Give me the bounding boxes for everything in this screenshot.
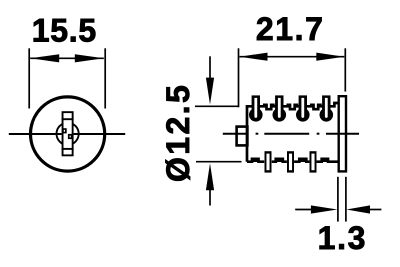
extension line left of 21.7 xyxy=(238,48,240,107)
centerline left segment xyxy=(9,133,62,135)
tumbler pin 3 xyxy=(296,95,310,121)
keyhole top cap line xyxy=(62,118,74,120)
tumbler pin 4 xyxy=(320,95,334,121)
extension line left of 15.5 xyxy=(28,48,30,108)
1.3 left arrowhead xyxy=(311,205,338,213)
arrowhead left (15.5) xyxy=(30,54,59,62)
centerline right segment xyxy=(74,133,126,135)
Ø12.5 bottom extension line xyxy=(196,161,242,163)
1.3 right leader line xyxy=(369,209,381,211)
centerline of side view (dash-dot) xyxy=(223,133,359,135)
keyhole bottom cap line xyxy=(62,148,74,150)
svg-text:1.3: 1.3 xyxy=(318,220,368,256)
svg-text:15.5: 15.5 xyxy=(32,13,97,49)
Ø12.5 top arrowhead xyxy=(206,78,214,105)
dimension line 15.5 xyxy=(30,57,104,59)
1.3 right arrowhead xyxy=(346,205,370,213)
Ø12.5 bottom arrowhead xyxy=(206,163,214,190)
svg-text:Ø12.5: Ø12.5 xyxy=(160,83,196,182)
bottom tooth 2 xyxy=(287,151,294,172)
keyhole slot body xyxy=(63,112,73,155)
front flange xyxy=(339,96,346,171)
extension line right of 15.5 xyxy=(104,48,106,108)
svg-text:21.7: 21.7 xyxy=(256,11,325,47)
arrowhead right (21.7) xyxy=(316,53,344,61)
cylinder body bottom edge with bumps xyxy=(247,159,338,162)
cam nose on left of body xyxy=(237,127,248,146)
tumbler pin 1 xyxy=(249,95,263,121)
bottom tooth 3 xyxy=(310,151,317,172)
keyhole right ward notch xyxy=(69,135,72,139)
cylinder body outline: left edge and castellated top edge xyxy=(247,103,338,162)
1.3 extension line right xyxy=(345,177,347,222)
1.3 left leader line xyxy=(295,209,312,211)
extension line right of 21.7 xyxy=(344,48,346,91)
Ø12.5 bottom arrow leader xyxy=(209,188,211,206)
1.3 extension line left xyxy=(337,177,339,222)
arrowhead left (21.7) xyxy=(240,53,268,61)
Ø12.5 top arrow leader xyxy=(209,56,211,79)
Ø12.5 top extension line xyxy=(195,105,239,107)
arrowhead right (15.5) xyxy=(75,54,104,62)
keyhole left ward notch xyxy=(63,129,66,133)
tumbler pin 2 xyxy=(273,95,287,121)
dimension line 21.7 xyxy=(240,56,345,58)
inner circle (plug) xyxy=(57,123,79,145)
bottom tooth 1 xyxy=(265,151,272,172)
outer circle (cylinder face) xyxy=(31,97,105,171)
